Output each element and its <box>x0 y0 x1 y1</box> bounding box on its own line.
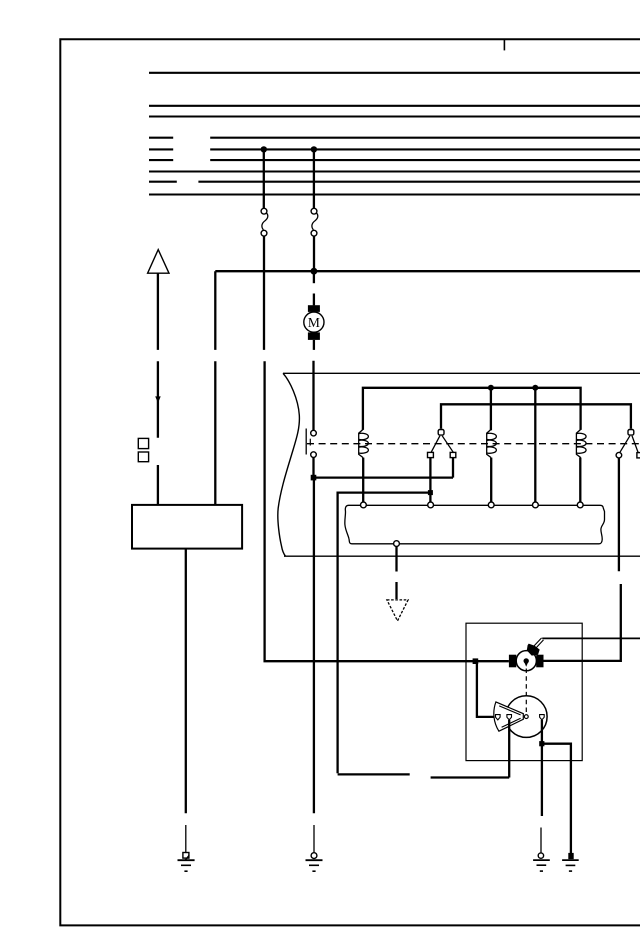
rotor spark gap double line <box>534 638 544 649</box>
wire bus line 4 <box>149 137 640 139</box>
wire from bus to fuse F2 <box>313 149 315 208</box>
wire bus line 9 <box>149 193 640 195</box>
control unit box <box>132 505 242 549</box>
dashed shaft line rotor to cap <box>525 669 527 714</box>
wire feed horizontal <box>214 361 216 505</box>
wire strip bottom pin down (lower) <box>395 582 397 599</box>
node junction at motor feed <box>311 268 318 275</box>
wire from connector to control box <box>157 465 159 505</box>
wire cap terminal 3 down <box>541 720 543 816</box>
armature tick <box>309 439 311 446</box>
flow arrowhead on wire <box>155 396 161 403</box>
distributor cap <box>506 696 548 738</box>
wire from bus to fuse F1 <box>263 149 265 208</box>
node junction on bus line 5 right <box>311 146 317 152</box>
terminal circle (motor wire, upper) <box>311 430 317 436</box>
relay switch S2 <box>620 430 640 458</box>
wire node to motor (with connector break) <box>313 271 315 305</box>
wire S1 left contact down <box>429 458 431 503</box>
wire junction to right ground <box>542 744 571 853</box>
ground G4 <box>562 853 579 871</box>
off-page arrow up <box>148 250 169 274</box>
terminal circle (motor wire, lower) <box>311 452 317 458</box>
wire S1 left contact to pulser line <box>338 493 431 774</box>
node junction square S1-left <box>428 490 433 495</box>
wire below fuse F1 (lower segment to corner) <box>265 361 509 661</box>
motor M1 <box>304 305 324 340</box>
relay box outline (torn left edge) <box>278 373 640 556</box>
svg-text:M: M <box>308 315 320 330</box>
wire pulser horizontal right segment <box>431 776 510 778</box>
ground G2 <box>306 853 323 872</box>
wire S2 contact down (upper) <box>618 458 620 571</box>
relay coil L1 <box>359 430 369 458</box>
wire below fuse F1 (upper segment) <box>263 236 265 350</box>
wire below motor into relay box <box>312 361 314 431</box>
terminal circle strip pin 5 <box>577 502 583 508</box>
relay switch S1 <box>428 430 456 458</box>
wire from arrow down (middle segment) <box>157 361 159 438</box>
fuse F2 <box>311 208 318 236</box>
wire junction down to cap terminal 1 <box>477 661 496 717</box>
cap terminal 3 <box>540 715 545 720</box>
wire fuse F2 to node <box>313 236 315 271</box>
rotor arm wedge <box>494 702 523 731</box>
rotor / igniter unit <box>509 644 544 671</box>
wire to ground G3 (thin) <box>540 828 542 854</box>
ground G1 <box>178 853 195 872</box>
relay switch S1 feed wire <box>441 404 631 429</box>
ground G3 <box>533 853 550 871</box>
connector strip (torn rounded box) <box>345 505 605 544</box>
distributor assembly enclosure <box>466 623 582 760</box>
wire from arrow down (upper segment) <box>157 273 159 350</box>
terminal circle strip pin 1 <box>361 502 367 508</box>
relay armature bar <box>305 429 307 455</box>
wire bus to S1 right contact <box>314 476 454 478</box>
wire spark output to right <box>542 637 640 639</box>
wire S1 right contact down <box>452 458 454 478</box>
terminal circle S2 left contact <box>616 452 622 458</box>
relay coil L2 <box>487 388 497 458</box>
wire coil L1 to strip terminal <box>362 458 364 503</box>
node junction mid drop <box>532 385 538 391</box>
wire coil L3 to strip terminal <box>579 458 581 503</box>
wire mid drop to strip terminal <box>534 388 536 503</box>
wire bus line 3 <box>149 115 640 117</box>
wire strip bottom pin down (upper) <box>395 547 397 572</box>
node junction square at igniter feed <box>473 658 479 664</box>
cap terminal 1 <box>496 715 501 720</box>
terminal circle strip pin 3 <box>488 502 494 508</box>
wire bus line 1 <box>149 72 640 74</box>
wire bus line 6 <box>149 159 640 161</box>
terminal circle strip bottom pin <box>394 541 400 547</box>
node junction on bus line 5 left <box>261 146 267 152</box>
connector squares pair <box>138 438 148 461</box>
wire control box to ground (upper) <box>185 549 187 814</box>
distributor center pin <box>524 715 528 719</box>
wire lower terminal to junction <box>312 457 314 477</box>
cap terminal 2 <box>507 715 512 720</box>
wire cap terminal 2 to pulser line <box>508 720 510 778</box>
off-page arrow down (dotted) <box>387 600 408 621</box>
wire bus line 7 <box>149 170 640 172</box>
fuse F1 <box>261 208 268 236</box>
terminal circle strip pin 2 <box>428 502 434 508</box>
wire control box to ground (lower thin) <box>185 825 187 852</box>
node junction square at cap drain <box>539 741 544 746</box>
relay top bus wire <box>363 388 581 430</box>
wire coil L2 to strip terminal <box>490 458 492 503</box>
wire S2 contact down (lower) to rotor <box>543 584 621 661</box>
wire below motor (upper segment) <box>313 340 315 350</box>
wire bus line 8 <box>149 181 640 183</box>
wire pulser horizontal left segment <box>338 773 410 775</box>
node junction coil L2 top <box>488 385 494 391</box>
mechanical linkage dashed line <box>307 443 640 445</box>
wire to ground G2 (thin) <box>313 825 315 853</box>
wire bus line 5 <box>149 148 640 150</box>
wire junction down to ground (long) <box>313 478 315 814</box>
terminal circle strip pin 4 <box>533 502 539 508</box>
wire bus line 2 <box>149 105 640 107</box>
relay coil L3 <box>576 430 586 458</box>
node junction square left <box>311 475 317 481</box>
